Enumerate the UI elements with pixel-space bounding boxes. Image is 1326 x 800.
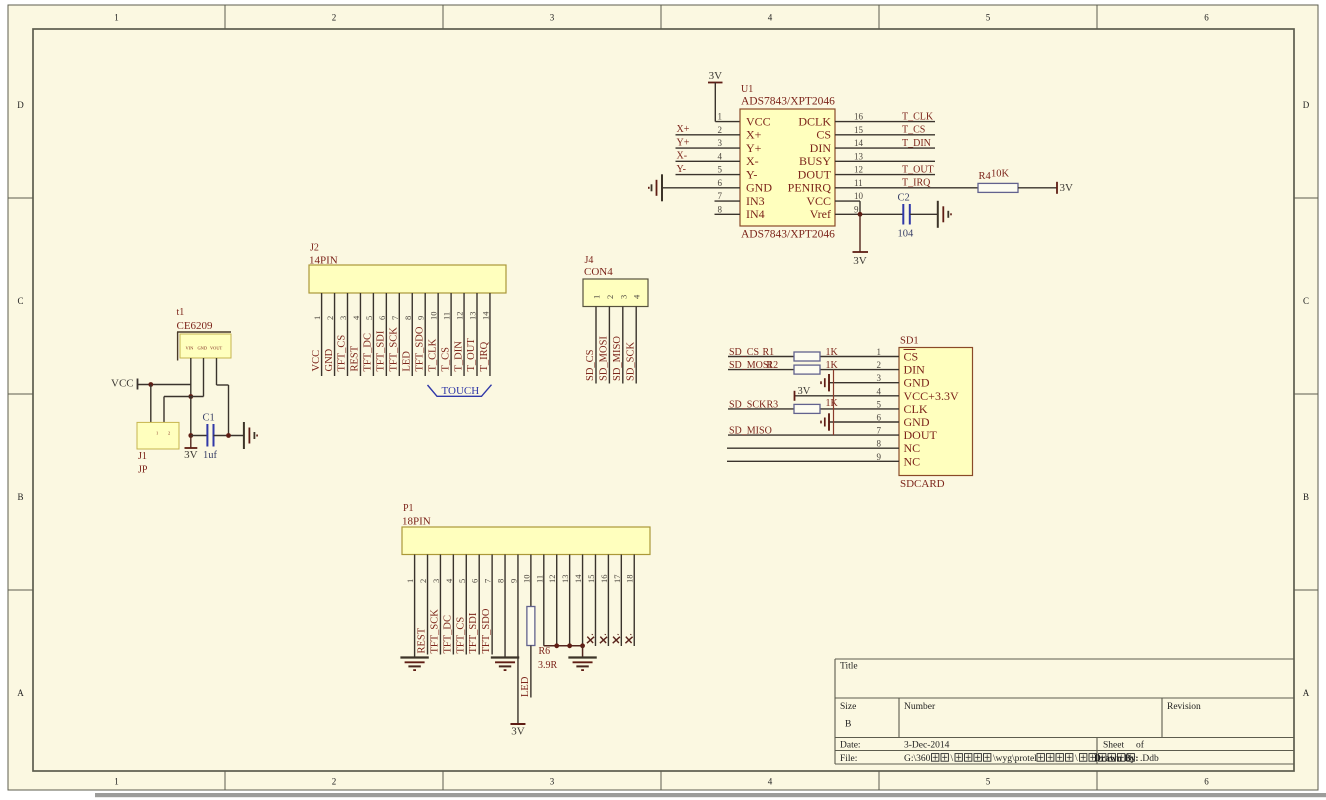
svg-text:SD_SCK: SD_SCK <box>729 399 767 410</box>
svg-text:G:\360: G:\360 <box>904 754 931 764</box>
wire P1 pin9 to 3V <box>517 555 519 724</box>
svg-text:VCC+3.3V: VCC+3.3V <box>904 389 959 403</box>
svg-text:13: 13 <box>560 575 570 584</box>
wire J2 pin 8 <box>411 293 413 376</box>
svg-text:TFT_SCK: TFT_SCK <box>429 609 440 654</box>
svg-text:TFT_DC: TFT_DC <box>442 615 453 654</box>
svg-text:VCC: VCC <box>746 114 771 128</box>
op-amp U1 body <box>740 109 835 226</box>
svg-text:4: 4 <box>877 386 882 396</box>
no-ERC mark <box>600 637 607 643</box>
wire U1 pin10 <box>835 200 860 202</box>
wire J2 pin 12 <box>463 293 465 376</box>
svg-text:11: 11 <box>442 312 452 320</box>
svg-text:IN4: IN4 <box>746 207 765 221</box>
svg-text:3: 3 <box>618 295 628 299</box>
svg-text:CS: CS <box>816 128 831 142</box>
svg-text:SD_CS: SD_CS <box>729 347 759 358</box>
svg-text:8: 8 <box>877 439 882 449</box>
connector J1 JP <box>137 422 179 449</box>
wire t1 pin2 <box>203 358 205 397</box>
no-ERC mark <box>613 637 620 643</box>
svg-text:X+: X+ <box>746 128 762 142</box>
svg-text:2: 2 <box>718 125 723 135</box>
svg-text:18: 18 <box>625 575 635 584</box>
svg-text:1: 1 <box>114 777 119 787</box>
capacitor C1 1uf <box>206 424 208 447</box>
svg-text:14: 14 <box>480 311 490 320</box>
svg-text:T_CLK: T_CLK <box>902 111 934 122</box>
svg-text:1: 1 <box>405 579 415 583</box>
wire down to 3V below C1 <box>190 436 192 448</box>
svg-text:3V: 3V <box>853 255 867 267</box>
wire C1 right <box>214 435 244 437</box>
svg-text:Revision: Revision <box>1167 702 1201 712</box>
wire t1 pin1 <box>190 358 192 397</box>
node VCC junction <box>148 382 153 387</box>
wire SD1 pin9 NC <box>727 460 899 462</box>
svg-text:9: 9 <box>416 316 426 320</box>
svg-text:R3: R3 <box>767 399 779 410</box>
svg-text:TFT_SDO: TFT_SDO <box>414 326 425 371</box>
wire J2 pin 10 <box>437 293 439 376</box>
svg-text:12: 12 <box>854 165 863 175</box>
svg-text:3V: 3V <box>798 386 811 397</box>
wire VCC to t1 pin1 <box>138 384 191 386</box>
svg-text:TFT_CS: TFT_CS <box>337 335 348 372</box>
svg-text:R2: R2 <box>767 360 779 371</box>
wire C2 to ground <box>910 213 938 215</box>
wire P1 pin 5 net TFT_CS <box>465 555 467 655</box>
svg-text:LED: LED <box>520 676 531 697</box>
svg-text:T_DIN: T_DIN <box>902 138 931 149</box>
svg-text:104: 104 <box>898 229 915 240</box>
svg-text:DOUT: DOUT <box>904 428 938 442</box>
svg-text:DIN: DIN <box>904 363 926 377</box>
svg-text:14: 14 <box>854 138 864 148</box>
wire junction to J1 pin1 <box>150 385 152 423</box>
ground (P1 pin14) <box>568 656 596 658</box>
svg-text:CS: CS <box>904 350 919 364</box>
svg-text:T_IRQ: T_IRQ <box>902 178 931 189</box>
svg-text:6: 6 <box>377 316 387 320</box>
svg-text:\: \ <box>951 754 954 764</box>
svg-text:TFT_DC: TFT_DC <box>363 333 374 372</box>
wire SD_CS net <box>728 356 794 358</box>
svg-text:J1: J1 <box>138 451 147 462</box>
svg-text:12: 12 <box>547 575 557 584</box>
svg-text:\wyg\protel: \wyg\protel <box>993 754 1037 764</box>
svg-text:3V: 3V <box>1060 182 1074 194</box>
svg-text:Drawn By:: Drawn By: <box>1094 754 1139 764</box>
svg-text:VCC: VCC <box>311 350 322 372</box>
wire P1 pin1 to ground <box>414 555 416 658</box>
resistor R3 1K <box>794 404 820 413</box>
node t1 pin1 lower junction <box>188 394 193 399</box>
svg-text:Y-: Y- <box>677 164 686 175</box>
svg-text:REST: REST <box>417 627 428 653</box>
svg-text:3V: 3V <box>511 726 525 738</box>
svg-text:1K: 1K <box>826 360 839 371</box>
svg-text:C2: C2 <box>898 193 910 204</box>
resistor R2 1K <box>794 365 820 374</box>
svg-text:SD_MISO: SD_MISO <box>612 336 623 381</box>
svg-text:5: 5 <box>457 579 467 583</box>
ground (right of C1) <box>243 422 245 449</box>
svg-text:6: 6 <box>1204 777 1209 787</box>
svg-text:CLK: CLK <box>904 402 928 416</box>
wire J2 pin 9 <box>424 293 426 376</box>
svg-text:Vref: Vref <box>810 207 831 221</box>
resistor R4 10K <box>978 183 1018 192</box>
svg-text:7: 7 <box>483 579 493 583</box>
wire SD1 pin8 NC <box>727 447 899 449</box>
svg-text:5: 5 <box>364 316 374 320</box>
svg-text:GND: GND <box>198 346 208 351</box>
svg-text:3-Dec-2014: 3-Dec-2014 <box>904 741 950 751</box>
svg-text:D: D <box>17 100 24 110</box>
power 3V (SD1 pin4) <box>794 391 796 401</box>
svg-text:10: 10 <box>521 575 531 584</box>
wire P1 pin 7 net TFT_SDO <box>491 555 493 655</box>
svg-text:1: 1 <box>114 13 119 23</box>
svg-text:7: 7 <box>877 426 882 436</box>
svg-text:2: 2 <box>332 13 337 23</box>
power 3V (below U1) <box>853 251 869 253</box>
svg-text:4: 4 <box>718 151 723 161</box>
svg-text:Title: Title <box>840 662 858 672</box>
wire junction down to 3V <box>859 214 861 251</box>
svg-text:1: 1 <box>592 295 602 299</box>
frame row ticks <box>8 197 33 199</box>
svg-text:18PIN: 18PIN <box>402 516 431 528</box>
wire SD1 pin3 to ground <box>829 382 899 384</box>
svg-text:ADS7843/XPT2046: ADS7843/XPT2046 <box>741 96 835 108</box>
svg-text:3: 3 <box>550 13 555 23</box>
svg-text:TFT_SDI: TFT_SDI <box>468 612 479 653</box>
capacitor C2 104 <box>902 204 904 225</box>
svg-text:t1: t1 <box>177 307 185 318</box>
wire J2 pin 14 <box>489 293 491 376</box>
svg-text:15: 15 <box>586 575 596 584</box>
svg-text:U1: U1 <box>741 84 753 95</box>
ground (P1 pin8) <box>491 656 519 658</box>
svg-text:2: 2 <box>877 360 882 370</box>
svg-text:SD_SCK: SD_SCK <box>625 341 636 381</box>
svg-text:TFT_CS: TFT_CS <box>455 617 466 654</box>
node C1 right junction <box>226 433 231 438</box>
wire J2 pin 3 <box>347 293 349 376</box>
svg-text:J2: J2 <box>310 243 319 254</box>
svg-text:VIN: VIN <box>186 346 195 351</box>
svg-text:of: of <box>1136 740 1145 751</box>
svg-text:1: 1 <box>156 431 158 436</box>
svg-text:1: 1 <box>312 316 322 320</box>
svg-text:PENIRQ: PENIRQ <box>788 181 832 195</box>
wire J2 pin 4 <box>359 293 361 376</box>
wire P1 pin 6 net TFT_SDI <box>478 555 480 655</box>
wire U1 pin8 <box>715 213 741 215</box>
wire down to C1 <box>190 397 192 436</box>
svg-text:2: 2 <box>168 431 170 436</box>
svg-text:D: D <box>1303 100 1310 110</box>
svg-text:16: 16 <box>599 575 609 584</box>
svg-text:2: 2 <box>325 316 335 320</box>
svg-text:SDCARD: SDCARD <box>900 478 945 490</box>
svg-text:4: 4 <box>768 13 773 23</box>
power 3V (below P1) <box>510 723 525 725</box>
svg-text:CE6209: CE6209 <box>177 320 214 332</box>
svg-text:T_CLK: T_CLK <box>427 338 438 371</box>
wire R4 to 3V <box>1018 187 1057 189</box>
svg-text:GND: GND <box>904 376 930 390</box>
svg-text:REST: REST <box>350 345 361 371</box>
svg-text:R6: R6 <box>539 646 551 657</box>
svg-text:IN3: IN3 <box>746 194 765 208</box>
svg-text:12: 12 <box>455 312 465 321</box>
svg-text:2: 2 <box>332 777 337 787</box>
svg-text:10: 10 <box>854 191 864 201</box>
svg-text:T_CS: T_CS <box>440 347 451 372</box>
svg-text:LED: LED <box>401 351 412 372</box>
svg-text:T_CS: T_CS <box>902 125 925 136</box>
svg-text:9: 9 <box>877 452 882 462</box>
svg-text:1: 1 <box>718 112 723 122</box>
wire P1 pin10 to R6 <box>530 555 532 607</box>
svg-text:B: B <box>845 720 851 730</box>
wire J2 pin 2 <box>334 293 336 376</box>
svg-text:VCC: VCC <box>806 194 831 208</box>
wire J2 pin 7 <box>398 293 400 376</box>
resistor R1 1K <box>794 352 820 361</box>
power 3V (right of R4) <box>1056 182 1058 194</box>
svg-text:C1: C1 <box>203 413 215 424</box>
node junction pin9/pin10 <box>858 212 863 217</box>
svg-text:7: 7 <box>390 316 400 320</box>
svg-text:Y-: Y- <box>746 167 757 181</box>
svg-text:SD_MOSI: SD_MOSI <box>599 336 610 381</box>
svg-text:GND: GND <box>324 348 335 371</box>
svg-text:T_DIN: T_DIN <box>453 341 464 372</box>
svg-text:T_IRQ: T_IRQ <box>479 341 490 371</box>
svg-text:BUSY: BUSY <box>799 154 831 168</box>
svg-text:A: A <box>17 688 24 698</box>
wire pin14 down to ground <box>582 646 584 658</box>
wire U1 pin6 GND <box>662 187 740 189</box>
svg-text:DOUT: DOUT <box>798 167 832 181</box>
svg-text:5: 5 <box>986 777 991 787</box>
svg-text:ADS7843/XPT2046: ADS7843/XPT2046 <box>741 229 835 241</box>
svg-text:File:: File: <box>840 754 857 764</box>
svg-text:1K: 1K <box>826 398 839 409</box>
svg-text:1uf: 1uf <box>203 450 218 461</box>
no-ERC mark <box>587 637 594 643</box>
svg-text:7: 7 <box>718 191 723 201</box>
wire P1 pin 3 net TFT_SCK <box>439 555 441 655</box>
svg-text:3V: 3V <box>184 449 198 461</box>
svg-text:8: 8 <box>496 579 506 583</box>
wire SD1 pin4 to 3V <box>795 395 900 397</box>
wire C1 left <box>191 435 208 437</box>
wire SD_SCK net <box>728 408 794 410</box>
svg-text:4: 4 <box>768 777 773 787</box>
svg-text:GND: GND <box>746 181 772 195</box>
svg-text:.Ddb: .Ddb <box>1140 754 1159 764</box>
ground (SD1 pin6) <box>828 413 830 430</box>
wire U1 pin11 T_IRQ <box>835 187 978 189</box>
svg-text:T_OUT: T_OUT <box>466 338 477 372</box>
wire U1 pin9 Vref <box>835 213 903 215</box>
svg-text:17: 17 <box>612 575 622 584</box>
svg-text:TFT_SDO: TFT_SDO <box>481 608 492 653</box>
svg-text:6: 6 <box>470 579 480 583</box>
svg-text:VCC: VCC <box>111 378 134 390</box>
svg-text:13: 13 <box>854 151 864 161</box>
svg-text:B: B <box>1303 492 1309 502</box>
svg-text:14: 14 <box>573 574 583 583</box>
svg-text:5: 5 <box>986 13 991 23</box>
svg-text:Sheet: Sheet <box>1103 741 1124 751</box>
svg-text:1: 1 <box>877 347 882 357</box>
svg-text:8: 8 <box>718 204 723 214</box>
svg-text:3: 3 <box>877 373 882 383</box>
power 3V (below t1) <box>185 447 198 449</box>
svg-text:SD_MISO: SD_MISO <box>729 426 772 437</box>
svg-text:Date:: Date: <box>840 741 861 751</box>
svg-text:SD1: SD1 <box>900 336 919 347</box>
svg-text:X+: X+ <box>677 124 690 135</box>
svg-text:B: B <box>17 492 23 502</box>
wire J4 pin 1 <box>595 307 597 384</box>
svg-text:J4: J4 <box>585 255 594 266</box>
svg-text:SD_CS: SD_CS <box>585 349 596 381</box>
node junctions pins 12,13,14 <box>554 643 559 648</box>
ground (P1 pin1) <box>400 656 428 658</box>
svg-text:VOUT: VOUT <box>210 346 223 351</box>
wires U1 pins 2-5 with net labels X+ Y+ X- Y- <box>676 134 741 136</box>
svg-text:1K: 1K <box>826 347 839 358</box>
wires P1 pins 11-14 <box>543 555 545 646</box>
svg-text:11: 11 <box>534 575 544 583</box>
svg-text:P1: P1 <box>403 503 414 514</box>
svg-text:NC: NC <box>904 454 921 468</box>
svg-text:DIN: DIN <box>810 141 832 155</box>
svg-text:3: 3 <box>431 579 441 583</box>
wires U1 pins 16-13 with labels <box>835 121 935 123</box>
svg-text:\: \ <box>1075 754 1078 764</box>
svg-text:DCLK: DCLK <box>798 114 831 128</box>
wire J2 pin 1 <box>321 293 323 376</box>
wire horizontal to J1 pin2 <box>164 396 204 398</box>
ground (SD1 pin3) <box>828 374 830 391</box>
svg-text:10K: 10K <box>991 169 1010 180</box>
svg-text:R4: R4 <box>979 171 992 182</box>
wire J2 pin 13 <box>476 293 478 376</box>
svg-text:5: 5 <box>718 165 723 175</box>
wire P1 pin 2 net REST <box>427 555 429 655</box>
svg-text:3.9R: 3.9R <box>538 660 558 671</box>
svg-text:6: 6 <box>718 178 723 188</box>
wire SD1 pin6 to ground <box>829 421 899 423</box>
svg-text:TOUCH: TOUCH <box>442 385 480 397</box>
bottom gray scrollbar line <box>95 793 1326 797</box>
svg-text:GND: GND <box>904 415 930 429</box>
svg-text:TFT_SCK: TFT_SCK <box>389 327 400 372</box>
wire bus to ground <box>544 645 583 647</box>
svg-text:5: 5 <box>877 399 882 409</box>
wire vertical crossing (SD1) <box>833 370 835 436</box>
svg-text:JP: JP <box>138 465 148 476</box>
svg-text:Number: Number <box>904 702 936 712</box>
svg-text:11: 11 <box>854 178 863 188</box>
svg-text:T_OUT: T_OUT <box>902 164 934 175</box>
svg-text:CON4: CON4 <box>584 266 613 278</box>
wire U1 pin7 <box>715 200 741 202</box>
wire J2 pin 11 <box>450 293 452 376</box>
svg-text:2: 2 <box>418 579 428 583</box>
svg-text:R1: R1 <box>763 347 775 358</box>
svg-text:C: C <box>1303 296 1309 306</box>
svg-text:6: 6 <box>1204 13 1209 23</box>
svg-text:TFT_SDI: TFT_SDI <box>376 330 387 371</box>
ground (right of C2) <box>937 201 939 228</box>
wire P1 pin8 to ground <box>504 555 506 658</box>
resistor R6 3.9R <box>527 607 535 646</box>
svg-text:3: 3 <box>718 138 723 148</box>
svg-text:13: 13 <box>468 312 478 321</box>
wire SD_MOSI net <box>728 369 794 371</box>
svg-text:3: 3 <box>338 316 348 320</box>
svg-text:Y+: Y+ <box>677 138 690 149</box>
svg-text:A: A <box>1303 688 1310 698</box>
svg-text:X-: X- <box>746 154 759 168</box>
svg-text:10: 10 <box>429 312 439 321</box>
svg-text:2: 2 <box>605 295 615 299</box>
no-ERC mark <box>625 637 632 643</box>
wire P1 pin 4 net TFT_DC <box>452 555 454 655</box>
TOUCH brace <box>428 385 492 397</box>
svg-text:9: 9 <box>508 579 518 583</box>
frame column ticks <box>224 5 226 29</box>
wire J4 pin 2 <box>608 307 610 384</box>
svg-text:16: 16 <box>854 112 864 122</box>
svg-text:C: C <box>17 296 23 306</box>
SD1 CS overline <box>904 349 916 351</box>
svg-text:3V: 3V <box>709 70 723 82</box>
svg-text:Y+: Y+ <box>746 141 762 155</box>
svg-text:X-: X- <box>677 151 688 162</box>
svg-text:6: 6 <box>877 413 882 423</box>
wire J2 pin 5 <box>372 293 374 376</box>
svg-text:NC: NC <box>904 441 921 455</box>
wire pin1 U1 to 3V <box>714 83 716 122</box>
ground (U1 pin6) <box>661 174 663 201</box>
wire R6 to net LED <box>530 646 532 698</box>
wire t1 pin3 <box>216 358 218 385</box>
wire J2 pin 6 <box>385 293 387 376</box>
svg-text:SD_MOSI: SD_MOSI <box>729 360 772 371</box>
node C1 left junction <box>188 433 193 438</box>
wire J4 pin 3 <box>622 307 624 384</box>
title block <box>835 658 1294 660</box>
wire SD_MISO net <box>728 434 899 436</box>
svg-text:15: 15 <box>854 125 864 135</box>
svg-text:Size: Size <box>840 702 856 712</box>
wires P1 pins 15-18 with no-ERC marks <box>594 555 596 647</box>
svg-text:3: 3 <box>550 777 555 787</box>
svg-text:8: 8 <box>403 316 413 320</box>
wire J4 pin 4 <box>635 307 637 384</box>
